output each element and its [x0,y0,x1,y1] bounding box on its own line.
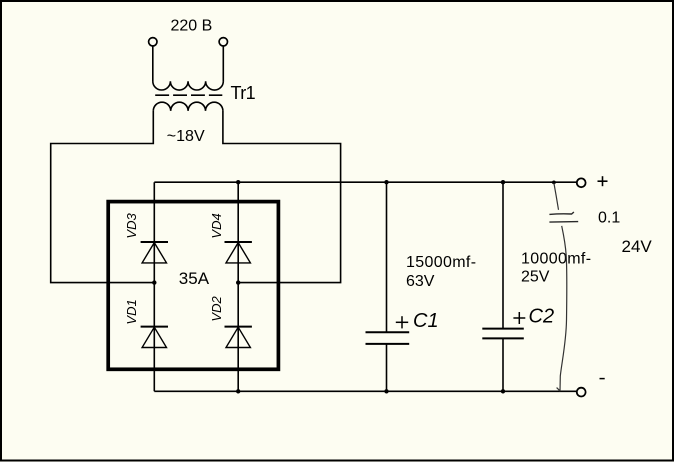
polarity plus C1 [396,316,408,328]
wire primary right lead [222,46,224,81]
svg-text:0.1: 0.1 [598,209,620,226]
svg-text:C1: C1 [413,310,439,332]
svg-text:63V: 63V [406,273,435,290]
svg-text:VD3: VD3 [124,213,139,239]
bridge module box 35A [108,202,278,370]
wire filter cap tick [557,388,561,392]
svg-text:VD4: VD4 [209,213,224,238]
node C1 bottom junction [384,389,388,393]
svg-text:35A: 35A [179,269,210,288]
svg-text:VD2: VD2 [209,296,224,322]
capacitor C1 [366,332,410,344]
svg-text:24V: 24V [622,237,653,256]
wire primary left lead [152,46,154,81]
diode VD2 [225,327,252,348]
node AC2 junction [236,280,240,284]
polarity plus C2 [513,312,525,324]
terminal output negative [577,388,586,397]
capacitor 0.1 [549,212,578,222]
label minus output [600,378,605,380]
wire filter cap lower lead [560,226,567,391]
transformer Tr1 secondary winding [153,102,223,111]
node C2 bottom junction [501,389,505,393]
node C2 top junction [501,180,505,184]
wire C1 upper lead [386,182,388,332]
transformer Tr1 primary winding [153,81,224,90]
node AC1 junction [152,280,156,284]
diode VD4 [225,242,252,263]
svg-text:10000mf-: 10000mf- [521,251,591,268]
svg-text:220 B: 220 B [171,18,213,35]
diode VD1 [141,327,168,348]
wire C2 upper lead [502,182,504,328]
wire secondary right to AC2 node [223,111,341,283]
terminal primary left [149,38,157,46]
svg-text:VD1: VD1 [124,299,139,324]
terminal primary right [219,38,227,46]
wire secondary left to AC1 node [51,111,155,283]
diode VD3 [141,242,168,263]
svg-text:Tr1: Tr1 [231,83,256,103]
capacitor C2 [482,329,524,339]
wire bridge right branch [237,182,239,391]
wire negative rail bottom [154,390,576,392]
node filter cap tap junction [552,181,556,185]
transformer Tr1 core [155,94,222,96]
wire bridge left branch [153,182,155,391]
svg-text:C2: C2 [529,305,555,327]
terminal output positive [577,178,586,187]
wire C2 lower lead [502,338,504,391]
label plus output [598,176,608,186]
svg-text:~18V: ~18V [167,128,205,145]
node bridge right bottom junction [236,389,240,393]
wire positive rail top [154,181,576,183]
node bridge right top junction [236,180,240,184]
wire C1 lower lead [386,344,388,391]
wire filter cap upper lead [554,183,559,210]
svg-text:15000mf-: 15000mf- [406,254,476,271]
node C1 top junction [384,180,388,184]
svg-text:25V: 25V [521,268,550,285]
